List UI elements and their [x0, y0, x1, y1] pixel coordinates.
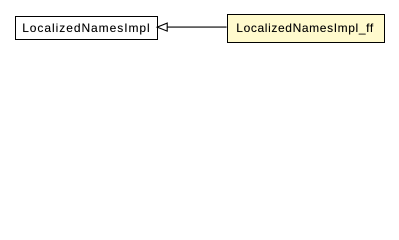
class box LocalizedNamesImpl_ff	[227, 14, 385, 43]
inheritance arrow from LocalizedNamesImpl_ff to LocalizedNamesImpl	[0, 0, 399, 59]
hollow triangle arrowhead pointing at LocalizedNamesImpl	[157, 23, 167, 31]
label LocalizedNamesImpl	[22, 22, 150, 34]
wire: horizontal association line	[167, 26, 227, 28]
label LocalizedNamesImpl_ff	[236, 22, 374, 34]
class box LocalizedNamesImpl	[15, 16, 158, 40]
